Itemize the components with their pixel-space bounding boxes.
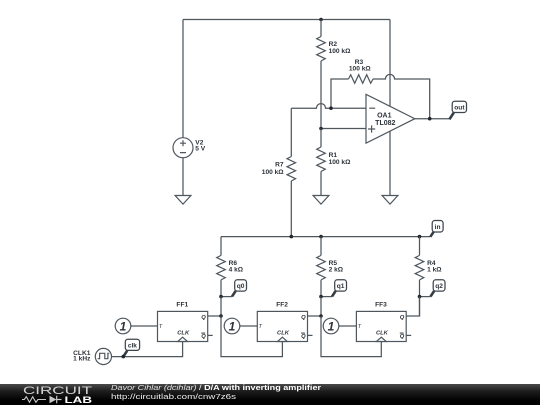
wire logic1 to FF3 T <box>339 325 357 327</box>
wire op-amp non-inverting input <box>321 128 366 130</box>
svg-text:q2: q2 <box>435 283 443 290</box>
svg-text:100 kΩ: 100 kΩ <box>262 169 285 176</box>
wire summing bus <box>221 236 430 238</box>
svg-text:FF3: FF3 <box>375 302 387 309</box>
svg-text:FF2: FF2 <box>276 302 288 309</box>
node junction q1 <box>319 295 323 299</box>
wire FF1 Qbar stub <box>208 334 213 336</box>
svg-text:1 kHz: 1 kHz <box>73 356 91 363</box>
wire logic1 to FF2 T <box>240 325 257 327</box>
resistor R1 100k <box>317 129 351 196</box>
svg-text:T: T <box>159 324 163 330</box>
svg-text:CLK: CLK <box>177 330 190 336</box>
svg-text:LAB: LAB <box>65 395 93 405</box>
wire V2 bottom lead <box>182 158 184 196</box>
svg-text:5 V: 5 V <box>195 146 205 153</box>
svg-text:1: 1 <box>120 319 127 333</box>
svg-text:2 kΩ: 2 kΩ <box>329 267 344 274</box>
wire R6 to FF1 Q <box>220 297 222 316</box>
ground under op-amp <box>382 196 398 205</box>
svg-text:R1: R1 <box>329 152 338 159</box>
wire FF2 Q output <box>308 315 322 317</box>
flip-flop FF2 <box>257 302 307 342</box>
svg-text:100 kΩ: 100 kΩ <box>329 48 352 55</box>
footer CircuitLab logo <box>22 385 93 405</box>
node junction R7 / bus <box>290 235 294 239</box>
wire FF1 Q to FF2 CLK <box>221 316 282 357</box>
node junction q0 <box>219 295 223 299</box>
svg-text:T: T <box>259 324 263 330</box>
source logic 1 for FF2 <box>224 318 240 334</box>
node clk flag attach <box>122 355 126 359</box>
node junction top rail / R2 <box>319 18 323 22</box>
ground under V2 <box>175 196 191 205</box>
flag q2 <box>420 280 446 297</box>
node junction FF1 Q <box>219 314 223 318</box>
svg-text:Q: Q <box>400 315 405 321</box>
node junction R3 / output <box>428 117 432 121</box>
voltage source V2 <box>173 138 206 158</box>
svg-text:Davor Cihlar (dcihlar) / D/A w: Davor Cihlar (dcihlar) / D/A with invert… <box>111 383 321 392</box>
wire op-amp output <box>415 118 450 120</box>
svg-text:100 kΩ: 100 kΩ <box>329 159 352 166</box>
svg-text:4 kΩ: 4 kΩ <box>229 267 244 274</box>
resistor R4 1k <box>415 237 442 297</box>
svg-text:http://circuitlab.com/cnw7z6s: http://circuitlab.com/cnw7z6s <box>111 392 236 401</box>
svg-text:q1: q1 <box>337 283 345 290</box>
flag out <box>449 101 466 119</box>
svg-text:Q: Q <box>400 334 405 340</box>
resistor R5 2k <box>317 237 344 297</box>
wire FF2 Q to FF3 CLK <box>321 316 381 357</box>
source logic 1 for FF3 <box>323 318 339 334</box>
source logic 1 for FF1 <box>115 318 131 334</box>
svg-text:1 kΩ: 1 kΩ <box>427 267 442 274</box>
wire op-amp inverting input <box>291 104 366 109</box>
flip-flop FF3 <box>356 302 406 342</box>
flag q0 <box>221 280 247 297</box>
svg-text:TL082: TL082 <box>375 120 395 127</box>
wire R5 to FF2 Q <box>320 297 322 316</box>
wire FF3 Qbar stub <box>406 334 411 336</box>
svg-text:Q: Q <box>201 334 206 340</box>
resistor R3 100k feedback <box>331 59 430 119</box>
flag in <box>430 221 443 237</box>
flag clk <box>123 339 139 356</box>
svg-text:q0: q0 <box>237 283 245 290</box>
wire FF2 Qbar stub <box>308 334 313 336</box>
node junction R5 / bus <box>319 235 323 239</box>
svg-text:Q: Q <box>301 334 306 340</box>
wire top supply rail <box>183 19 390 21</box>
node junction R2 / R1 / non-inverting input <box>319 127 323 131</box>
wire V2 top lead <box>182 20 184 138</box>
wire logic1 to FF1 T <box>131 325 158 327</box>
node junction FF2 Q <box>319 314 323 318</box>
svg-text:FF1: FF1 <box>176 302 188 309</box>
svg-text:in: in <box>435 224 441 231</box>
flag q1 <box>321 280 347 297</box>
svg-text:1: 1 <box>229 319 236 333</box>
wire CLK1 to FF1 CLK <box>112 342 183 357</box>
clock source CLK1 <box>73 348 111 364</box>
node junction R4 / bus <box>418 235 422 239</box>
svg-text:CLK: CLK <box>376 330 389 336</box>
node junction q2 <box>418 295 422 299</box>
wire FF1 Q output <box>208 315 221 317</box>
svg-text:1: 1 <box>328 319 335 333</box>
svg-text:T: T <box>358 324 362 330</box>
svg-text:Q: Q <box>301 315 306 321</box>
svg-text:R7: R7 <box>275 162 284 169</box>
svg-text:100 kΩ: 100 kΩ <box>349 66 372 73</box>
svg-text:clk: clk <box>128 342 137 349</box>
svg-text:CLK: CLK <box>277 330 290 336</box>
svg-text:OA1: OA1 <box>377 113 392 120</box>
svg-text:Q: Q <box>201 315 206 321</box>
flip-flop FF1 <box>158 302 208 342</box>
node junction R3 / inverting input <box>329 106 333 110</box>
wire R4 column to FF3 Q <box>419 297 421 316</box>
ground under R1 <box>313 196 329 205</box>
resistor R6 4k <box>217 237 244 297</box>
resistor R2 100k <box>317 20 351 129</box>
wire FF3 Q output <box>406 297 419 316</box>
svg-text:out: out <box>454 105 465 112</box>
resistor R7 100k <box>262 108 296 236</box>
op-amp OA1 TL082 <box>366 20 415 196</box>
